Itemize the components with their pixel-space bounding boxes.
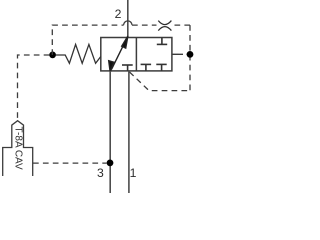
blocked port 1 symbol (left square) xyxy=(122,65,133,71)
pilot wire: cavity to node C xyxy=(33,162,107,164)
svg-text:3: 3 xyxy=(97,166,104,180)
line hop over port 2 line xyxy=(124,21,132,25)
junction node B (right rail) xyxy=(187,51,194,58)
pilot wire: hop to orifice xyxy=(132,24,157,26)
cartridge cavity outline T-8A xyxy=(3,121,33,176)
svg-text:2: 2 xyxy=(115,7,122,21)
svg-text:T-8A CAV: T-8A CAV xyxy=(12,127,23,170)
pilot wire: valve drain diagonal to right rail xyxy=(130,72,191,91)
blocked port symbols (right square, bottom left) xyxy=(141,64,152,71)
blocked port symbols (right square, bottom right) xyxy=(156,64,166,71)
svg-text:1: 1 xyxy=(130,166,137,180)
orifice (fixed restriction) xyxy=(158,21,171,31)
pilot right rail (vertical) xyxy=(189,25,191,91)
junction node A (pilot spring node) xyxy=(49,52,56,59)
junction node C (port 3 tap) xyxy=(107,160,114,167)
flow arrow (left position, port 2 to port 3) xyxy=(109,36,128,72)
pilot stub from valve to node B xyxy=(172,53,179,55)
pilot wire: orifice to right rail xyxy=(175,24,191,26)
port 2 line xyxy=(127,0,129,38)
pilot wire: node A up and across top xyxy=(52,25,123,55)
valve body U1 xyxy=(101,38,172,71)
port 1 line xyxy=(128,71,130,193)
spring xyxy=(56,44,101,63)
port 3 line xyxy=(109,71,111,193)
blocked port symbols (right square, top) xyxy=(157,38,167,45)
pilot wire: node A to cavity xyxy=(18,55,50,120)
